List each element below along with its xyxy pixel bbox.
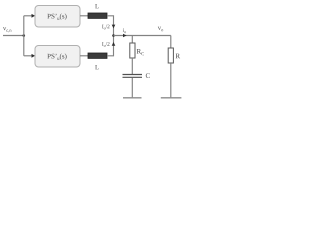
wire input horizontal xyxy=(3,35,24,37)
resistor Rc xyxy=(130,43,135,58)
node output junction dot xyxy=(112,34,115,37)
wire R to ground xyxy=(170,63,172,98)
wire top block to inductor xyxy=(80,15,88,17)
node vo label xyxy=(158,27,163,32)
label Io/2 top xyxy=(102,25,109,30)
capacitor C plate bottom xyxy=(123,76,143,78)
wire stub to top block xyxy=(24,15,32,17)
current arrow Io/2 top pointing down xyxy=(112,25,116,29)
ground load branch xyxy=(161,97,182,99)
label Io/2 bottom xyxy=(102,42,109,47)
wire branch vertical xyxy=(23,16,25,56)
node input junction dot xyxy=(23,34,26,37)
node v_c,n label xyxy=(3,27,12,32)
label L bottom xyxy=(95,65,98,69)
label PS'u(s) bottom xyxy=(47,54,66,60)
block PS'u(s) top xyxy=(35,6,80,28)
ground capacitor branch xyxy=(123,97,142,99)
current arrow io pointing right xyxy=(123,34,127,38)
wire to resistor R xyxy=(170,36,172,49)
label C xyxy=(146,73,150,78)
block PS'u(s) bottom xyxy=(35,46,80,68)
wire capacitor to ground xyxy=(131,78,133,98)
inductor L bottom xyxy=(88,53,107,58)
inductor L top xyxy=(88,13,107,18)
wire to resistor Rc xyxy=(131,36,133,44)
current arrow Io/2 bottom pointing up xyxy=(112,42,116,46)
wire bottom inductor to node xyxy=(107,36,114,56)
label PS'u(s) top xyxy=(47,14,66,20)
wire Rc to capacitor xyxy=(131,58,133,74)
label RC xyxy=(137,49,144,55)
capacitor C plate top xyxy=(123,74,143,76)
wire stub to bottom block xyxy=(24,55,32,57)
wire output horizontal xyxy=(114,35,171,37)
label R xyxy=(176,54,180,59)
resistor R xyxy=(168,48,173,63)
label L top xyxy=(95,4,98,8)
label io xyxy=(123,28,126,33)
wire bottom block to inductor xyxy=(80,55,88,57)
wire top inductor to node xyxy=(107,16,114,36)
